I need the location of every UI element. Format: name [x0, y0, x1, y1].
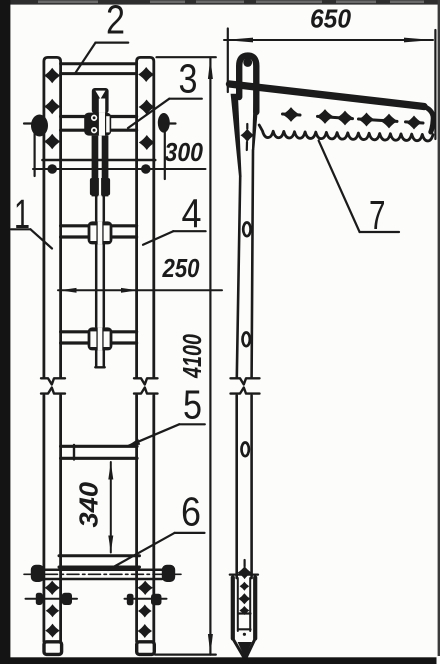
scan border bottom strip	[0, 657, 437, 664]
right rail foot	[137, 642, 155, 655]
callout 3 leader	[169, 98, 202, 100]
bracket sawtooth edge (item 7)	[259, 125, 433, 141]
screw head	[92, 88, 109, 113]
break symbol mast	[231, 378, 260, 384]
screw bars	[92, 136, 99, 197]
dimension 4100	[157, 56, 216, 58]
mast bottom diamond	[238, 566, 252, 579]
callout 5 leader	[179, 423, 205, 425]
svg-text:4100: 4100	[177, 334, 207, 379]
callout 6 leader	[175, 532, 205, 534]
svg-text:250: 250	[162, 253, 200, 283]
dark nut on screw	[90, 178, 110, 195]
mast front taper	[231, 94, 242, 177]
svg-text:3: 3	[179, 55, 198, 101]
svg-text:300: 300	[165, 137, 204, 167]
bottom assembly (item 6)	[59, 554, 140, 557]
mast lower section	[235, 396, 238, 579]
lower crossbar	[61, 330, 137, 333]
scan border left strip	[0, 0, 10, 664]
svg-text:650: 650	[310, 4, 352, 34]
scan border right strip	[438, 0, 440, 656]
left rail	[44, 57, 61, 377]
left side bolt	[31, 115, 48, 137]
callout 7 leader	[360, 231, 399, 233]
bottom rail diamonds row 1	[44, 581, 153, 595]
svg-text:7: 7	[369, 192, 386, 238]
bottom rail diamonds rows 2-3	[45, 604, 152, 638]
rail diamonds	[44, 67, 155, 150]
right side bolt	[158, 113, 170, 133]
left rail foot	[44, 642, 62, 655]
svg-text:1: 1	[14, 191, 30, 237]
spike	[233, 639, 244, 658]
mast hairpin eye	[239, 56, 256, 112]
middle crossbar (item 4)	[61, 224, 137, 227]
bracket diamonds	[282, 107, 422, 129]
mast holes	[243, 223, 250, 237]
break symbol left rail	[41, 378, 65, 384]
through bolt row	[26, 598, 78, 600]
eye pin	[243, 58, 252, 67]
crossbar item 5	[61, 445, 137, 448]
right rail	[137, 57, 154, 377]
650 dimension	[224, 39, 433, 41]
callout 2 leader	[96, 41, 129, 43]
mast diamond	[241, 129, 255, 143]
bracket top chord	[230, 84, 425, 107]
dimension 340	[110, 462, 112, 553]
svg-text:4: 4	[182, 190, 202, 236]
mast back taper	[252, 90, 260, 151]
svg-text:6: 6	[181, 488, 201, 534]
callout 4 leader	[173, 230, 205, 232]
bolt crossbar	[61, 115, 137, 118]
central nut on screw (item 3)	[84, 113, 111, 136]
dimension 300	[33, 168, 206, 170]
scan border top strip	[0, 0, 440, 5]
top crossbar (item 2)	[61, 62, 137, 65]
svg-text:2: 2	[106, 0, 125, 43]
callout 1 leader	[11, 228, 31, 230]
svg-text:340: 340	[74, 481, 104, 527]
break symbol right rail	[134, 378, 158, 384]
shoe	[231, 578, 235, 639]
svg-text:5: 5	[183, 382, 202, 428]
rail back bar	[43, 159, 156, 162]
dimension 250	[58, 289, 222, 291]
